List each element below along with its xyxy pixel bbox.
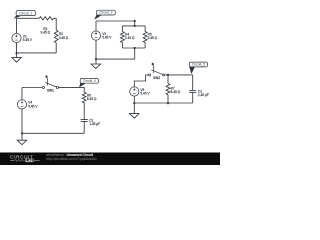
svg-text:SW2: SW2 xyxy=(153,76,160,80)
resistor R5 xyxy=(143,26,157,48)
svg-text:LAB: LAB xyxy=(26,158,32,162)
ground circuit4 xyxy=(17,140,26,145)
junction circuit5 ground node xyxy=(133,102,135,114)
wire parallel bottom rail xyxy=(122,47,145,59)
svg-text:Circuit_5: Circuit_5 xyxy=(192,63,205,67)
wire switch to top-right corner xyxy=(165,74,193,76)
resistor R3 xyxy=(39,17,53,35)
label Circuit_2 xyxy=(14,11,36,19)
wire bottom rail circuit4 xyxy=(22,121,84,133)
resistor R6 xyxy=(82,92,97,102)
svg-text:1.45 µF: 1.45 µF xyxy=(89,122,100,126)
logo CircuitLab xyxy=(10,155,40,163)
wire bottom rail circuit3 xyxy=(95,58,135,64)
ground circuit3 xyxy=(91,64,100,69)
wire top rail circuit2 xyxy=(17,17,40,19)
svg-text:1.45 µF: 1.45 µF xyxy=(198,93,209,97)
wire top-left circuit4 xyxy=(22,87,42,89)
svg-text:Circuit_4: Circuit_4 xyxy=(83,79,96,83)
switch SW2 xyxy=(149,63,165,80)
resistor R4 xyxy=(121,26,135,48)
wire R6 to C1 xyxy=(83,103,85,120)
voltage source V2 xyxy=(12,18,33,53)
svg-text:5.45 V: 5.45 V xyxy=(23,38,33,42)
svg-text:5.45 V: 5.45 V xyxy=(102,36,112,40)
ground circuit5 xyxy=(130,114,139,119)
svg-text:6.45 Ω: 6.45 Ω xyxy=(171,90,181,94)
svg-text:5.45 V: 5.45 V xyxy=(28,104,38,108)
capacitor C2 xyxy=(189,75,209,103)
wire source to switch circuit5 xyxy=(134,75,148,87)
wire top-right corner circuit2 xyxy=(53,18,56,30)
capacitor C1 xyxy=(81,118,100,126)
wire right-bottom circuit2 xyxy=(17,43,57,53)
svg-text:3.45 Ω: 3.45 Ω xyxy=(41,31,51,35)
wire top rail circuit3 xyxy=(96,20,135,22)
wire parallel top rail xyxy=(122,25,145,27)
wire switch to right branch xyxy=(59,87,85,92)
ground circuit2 xyxy=(12,58,21,63)
svg-text:5.45 V: 5.45 V xyxy=(140,91,150,95)
wire feed to parallel pair xyxy=(134,20,136,27)
footer credit text xyxy=(46,153,96,161)
label Circuit_3 xyxy=(94,10,115,20)
label Circuit_4 xyxy=(79,78,98,87)
voltage source V3 xyxy=(91,21,112,59)
label Circuit_5 xyxy=(189,62,207,74)
svg-text:2.45 Ω: 2.45 Ω xyxy=(125,36,135,40)
switch SW1 xyxy=(42,75,58,92)
resistor R7 xyxy=(166,75,181,104)
svg-text:3.45 Ω: 3.45 Ω xyxy=(59,36,69,40)
svg-text:6.45 Ω: 6.45 Ω xyxy=(87,97,97,101)
svg-text:Circuit_3: Circuit_3 xyxy=(99,11,112,15)
resistor R2 xyxy=(54,30,68,42)
voltage source V4 xyxy=(17,88,38,134)
voltage source V5 xyxy=(130,87,151,103)
junction circuit2 ground node xyxy=(15,52,17,57)
junction circuit4 ground node xyxy=(21,132,23,140)
svg-text:SW1: SW1 xyxy=(47,89,54,93)
svg-text:3.45 Ω: 3.45 Ω xyxy=(148,36,158,40)
svg-text:Circuit_2: Circuit_2 xyxy=(19,11,32,15)
svg-text:http://circuitlab.com/c/7pq64b: http://circuitlab.com/c/7pq64ba8kd xyxy=(46,157,96,161)
wire bottom rail circuit5 xyxy=(134,102,192,104)
